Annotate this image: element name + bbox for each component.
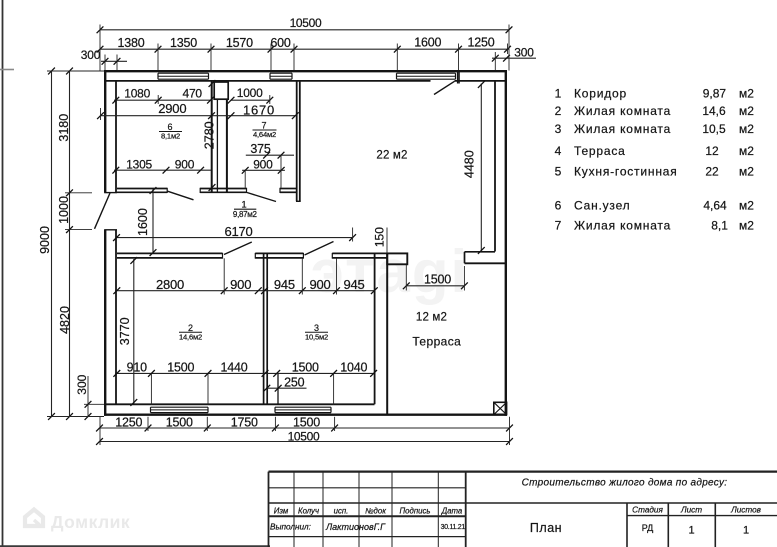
dim line top chain 1380/1350/1570/600/1600/1250 [100, 48, 509, 50]
wall under rooms 6/7 (corridor top) line A [117, 188, 167, 190]
balcony door leaf [434, 81, 455, 94]
dim 1500 (terrace) [406, 285, 465, 287]
svg-text:1440: 1440 [220, 360, 247, 374]
svg-text:м2: м2 [739, 144, 754, 158]
wall room3/terrace line B [386, 253, 388, 414]
watermark Domklik house icon [25, 510, 43, 528]
svg-text:4: 4 [555, 144, 562, 158]
window WA bottom wall (room 2) [150, 407, 152, 412]
svg-text:РД: РД [642, 523, 654, 533]
svg-text:1600: 1600 [414, 36, 441, 50]
svg-text:1250: 1250 [115, 415, 142, 429]
svg-text:10500: 10500 [288, 429, 320, 443]
svg-text:Изм: Изм [274, 506, 289, 515]
svg-text:12 м2: 12 м2 [416, 311, 447, 323]
svg-text:600: 600 [270, 36, 291, 50]
title block frame [269, 471, 777, 473]
partition rooms 6/7 line 3 [226, 99, 228, 192]
dim 375 (room 7) [246, 154, 294, 156]
room 3 door leaf [305, 242, 334, 256]
svg-text:Жилая комната: Жилая комната [574, 218, 671, 232]
dim line 10500 (top overall) [100, 29, 509, 31]
svg-text:2: 2 [188, 323, 193, 333]
svg-text:1350: 1350 [170, 36, 197, 50]
svg-text:м2: м2 [739, 87, 754, 101]
kitchen/terrace wall [465, 251, 496, 253]
svg-text:1380: 1380 [117, 36, 144, 50]
dim line bottom chain 1250/1500/1750/1500 [100, 427, 510, 429]
svg-text:3: 3 [314, 323, 319, 333]
svg-text:Терраса: Терраса [574, 144, 626, 158]
dim line left chain 3180/1000/4820 [69, 71, 71, 417]
door jamb caps rooms 6/7 wall [166, 188, 168, 193]
dim 1600 (corridor vertical) [152, 189, 154, 253]
dim 2780 (vertical, room 6 right) [209, 80, 216, 87]
svg-text:Жилая комната: Жилая комната [574, 122, 671, 136]
window W2 top wall (room 7) [269, 73, 271, 79]
dim 150 (corridor end) [386, 228, 388, 254]
room 3 niche line [277, 374, 279, 404]
room 7 door leaf [247, 193, 276, 202]
dim line 9000 (left overall) [51, 71, 53, 417]
dim 250 (room 3) [266, 387, 307, 389]
svg-text:2: 2 [555, 104, 562, 118]
svg-text:300: 300 [514, 46, 534, 60]
svg-text:945: 945 [274, 277, 295, 292]
dim 1000 (room 7 top) [231, 99, 271, 101]
svg-text:1040: 1040 [340, 360, 367, 374]
svg-text:9,87: 9,87 [703, 87, 727, 101]
svg-text:1570: 1570 [226, 36, 253, 50]
svg-text:1000: 1000 [237, 86, 263, 100]
dim 910/1500/1440 (room 2 bottom) + 1500/1040 (room 3 bottom) [115, 372, 375, 374]
svg-text:1: 1 [743, 525, 749, 537]
partition rooms 6/7 line 2 [216, 99, 218, 192]
svg-text:Колуч: Колуч [298, 506, 319, 515]
svg-text:Подпись: Подпись [400, 506, 431, 515]
svg-text:1500: 1500 [293, 415, 320, 429]
svg-text:4,64м2: 4,64м2 [253, 130, 276, 139]
svg-text:945: 945 [343, 277, 364, 292]
left exterior wall inner line [115, 80, 117, 192]
svg-text:3180: 3180 [57, 114, 71, 142]
svg-text:6170: 6170 [224, 224, 252, 239]
dim 6170 (corridor) [117, 237, 353, 239]
svg-text:900: 900 [253, 157, 273, 171]
svg-text:Терраса: Терраса [412, 335, 461, 349]
svg-text:4820: 4820 [58, 306, 72, 334]
top extension lines [99, 25, 101, 71]
svg-text:м2: м2 [739, 218, 754, 232]
right exterior wall outer line [505, 71, 507, 416]
dim 2900 (room 6) / 1670 (room 7) [101, 115, 296, 117]
svg-text:Жилая комната: Жилая комната [574, 104, 671, 118]
svg-text:1600: 1600 [136, 208, 150, 236]
top exterior wall inner line [104, 80, 431, 82]
terrace pier [387, 253, 407, 264]
door jamb caps corridor bottom wall [222, 253, 224, 259]
svg-text:1080: 1080 [124, 87, 150, 101]
svg-text:14,6: 14,6 [702, 104, 726, 118]
svg-text:4480: 4480 [462, 150, 476, 178]
svg-text:Коридор: Коридор [574, 87, 627, 101]
sheet left frame line [2, 0, 4, 547]
svg-text:исп.: исп. [334, 506, 349, 515]
svg-text:1500: 1500 [292, 360, 319, 374]
dim 2800/900 (room 2) + 945/900/945 (room 3) [115, 290, 375, 292]
bottom exterior wall inner line [104, 403, 375, 405]
svg-text:900: 900 [175, 157, 195, 171]
svg-text:1500: 1500 [166, 415, 193, 429]
left extension lines [47, 70, 104, 72]
corridor bottom wall (rooms 2/3 top) line A [117, 252, 223, 254]
left exterior wall outer line [104, 71, 106, 193]
svg-text:7: 7 [555, 218, 562, 232]
svg-text:900: 900 [309, 277, 330, 292]
svg-text:10,5м2: 10,5м2 [305, 333, 328, 342]
entrance opening caps [104, 192, 117, 194]
svg-text:2800: 2800 [156, 277, 184, 292]
svg-text:22: 22 [705, 165, 719, 179]
svg-text:Строительство жилого дома п: Строительство жилого дома по адресу: [522, 478, 728, 489]
svg-text:8,1: 8,1 [711, 218, 728, 232]
svg-text:9,87м2: 9,87м2 [233, 210, 258, 219]
room 2 door leaf [224, 242, 252, 255]
wall under rooms 6/7 (corridor top) line B [117, 191, 167, 193]
svg-text:1250: 1250 [467, 36, 494, 50]
svg-text:1670: 1670 [243, 102, 275, 117]
dim 1305/900 (room 6 bottom) [114, 169, 211, 171]
svg-text:9000: 9000 [38, 226, 52, 254]
dim 4480 (kitchen vertical) [480, 84, 482, 252]
wall room3/terrace line A [374, 253, 376, 404]
svg-text:Кухня-гостинная: Кухня-гостинная [574, 165, 678, 179]
svg-text:6: 6 [555, 199, 562, 213]
corridor bottom wall (rooms 2/3 top) line B [117, 257, 223, 259]
svg-text:1750: 1750 [231, 415, 258, 429]
svg-text:910: 910 [127, 360, 148, 374]
svg-text:10500: 10500 [290, 16, 322, 30]
svg-text:Сан.узел: Сан.узел [574, 199, 630, 213]
svg-text:Дата: Дата [441, 506, 463, 515]
dim 300 bottom-left (bottom wall thickness) [87, 376, 89, 417]
svg-text:3: 3 [555, 122, 562, 136]
svg-text:900: 900 [230, 277, 251, 292]
svg-text:№док: №док [365, 506, 386, 515]
svg-text:300: 300 [75, 374, 89, 394]
svg-text:Выполнил:: Выполнил: [270, 522, 311, 531]
svg-text:1: 1 [688, 525, 694, 537]
room 7 right wall [296, 81, 298, 201]
dim 1080/470 (room 6) [114, 99, 212, 101]
right exterior wall inner line [494, 80, 496, 251]
svg-text:Листов: Листов [730, 506, 762, 515]
svg-text:30.11.21: 30.11.21 [441, 524, 466, 531]
bottom extension lines [99, 417, 101, 445]
svg-text:2900: 2900 [158, 101, 186, 116]
sheet bottom frame line [0, 545, 270, 547]
svg-text:375: 375 [250, 142, 271, 156]
svg-text:м2: м2 [739, 122, 754, 136]
dim line 10500 (bottom overall) [100, 441, 510, 443]
dim 900 (room 7) [242, 169, 285, 171]
svg-text:470: 470 [182, 87, 202, 101]
window W1 top wall (room 6) [157, 73, 159, 79]
svg-text:4,64: 4,64 [703, 199, 727, 213]
top exterior wall outer line [104, 70, 507, 72]
svg-text:22 м2: 22 м2 [376, 150, 407, 162]
svg-text:5: 5 [555, 165, 562, 179]
svg-text:10,5: 10,5 [702, 122, 726, 136]
svg-text:1500: 1500 [167, 360, 194, 374]
terrace corner column (X box) [494, 402, 507, 414]
svg-text:Стадия: Стадия [632, 506, 663, 515]
room 6 door leaf [168, 191, 194, 200]
svg-text:8,1м2: 8,1м2 [161, 131, 180, 140]
scan artifact short line top-left [0, 69, 14, 71]
shaft box between rooms 6/7 [214, 82, 228, 99]
svg-text:1: 1 [555, 87, 562, 101]
entrance door leaf [95, 193, 111, 229]
svg-text:250: 250 [284, 375, 305, 389]
svg-text:12: 12 [705, 144, 719, 158]
svg-text:2780: 2780 [202, 121, 216, 149]
svg-text:м2: м2 [739, 199, 754, 213]
svg-text:ЛактионовГ.Г: ЛактионовГ.Г [325, 522, 386, 532]
svg-text:Домклик: Домклик [51, 512, 130, 532]
svg-text:м2: м2 [739, 104, 754, 118]
svg-text:Лист: Лист [680, 506, 702, 515]
svg-text:300: 300 [81, 48, 101, 62]
dim 3770 (room 2 vertical) [133, 259, 135, 404]
bottom exterior wall outer line [104, 414, 507, 416]
svg-text:1500: 1500 [424, 273, 451, 287]
partition rooms 6/7 line 1 [211, 81, 213, 192]
svg-text:м2: м2 [739, 165, 754, 179]
balcony door jamb [457, 71, 459, 84]
svg-text:14,6м2: 14,6м2 [179, 333, 202, 342]
svg-text:3770: 3770 [118, 317, 132, 345]
svg-text:План: План [530, 521, 562, 535]
svg-text:этаgi: этаgi [311, 238, 469, 305]
svg-text:150: 150 [373, 227, 387, 247]
partition rooms 2/3 [263, 253, 265, 404]
balcony window W3 top wall (kitchen) [396, 73, 398, 79]
svg-text:1305: 1305 [126, 157, 152, 171]
svg-text:1000: 1000 [57, 196, 71, 224]
window WB bottom wall (room 3) [274, 407, 276, 412]
